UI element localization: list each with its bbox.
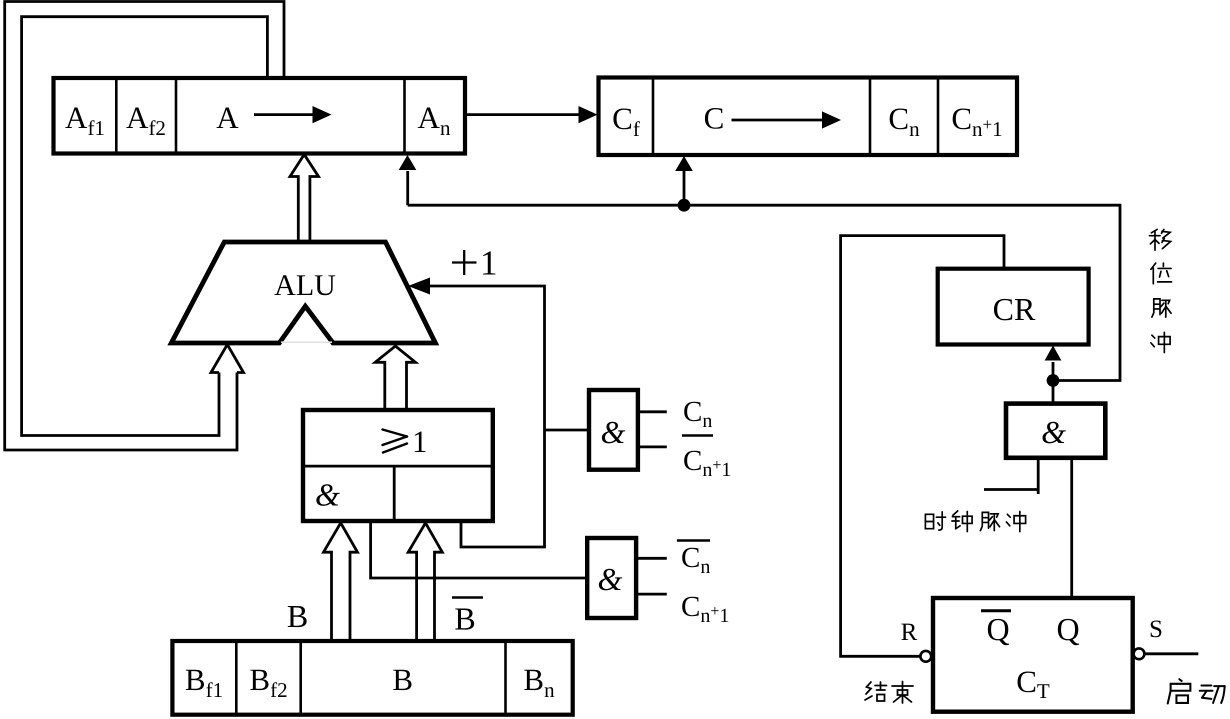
svg-text:CR: CR — [993, 291, 1036, 327]
svg-text:&: & — [1041, 414, 1066, 450]
svg-text:R: R — [901, 619, 918, 646]
svg-text:B: B — [287, 598, 308, 634]
svg-text:B: B — [454, 601, 475, 637]
svg-text:Q: Q — [1056, 611, 1079, 647]
svg-text:&: & — [601, 414, 626, 450]
svg-text:A: A — [216, 100, 239, 135]
svg-text:Q: Q — [986, 611, 1009, 647]
svg-text:ALU: ALU — [274, 269, 336, 302]
svg-text:C: C — [704, 101, 725, 136]
svg-text:S: S — [1149, 616, 1163, 643]
svg-text:B: B — [392, 662, 413, 697]
svg-text:&: & — [598, 561, 623, 597]
svg-text:&: & — [315, 477, 340, 513]
svg-text:1: 1 — [412, 424, 428, 459]
svg-text:1: 1 — [480, 244, 498, 283]
